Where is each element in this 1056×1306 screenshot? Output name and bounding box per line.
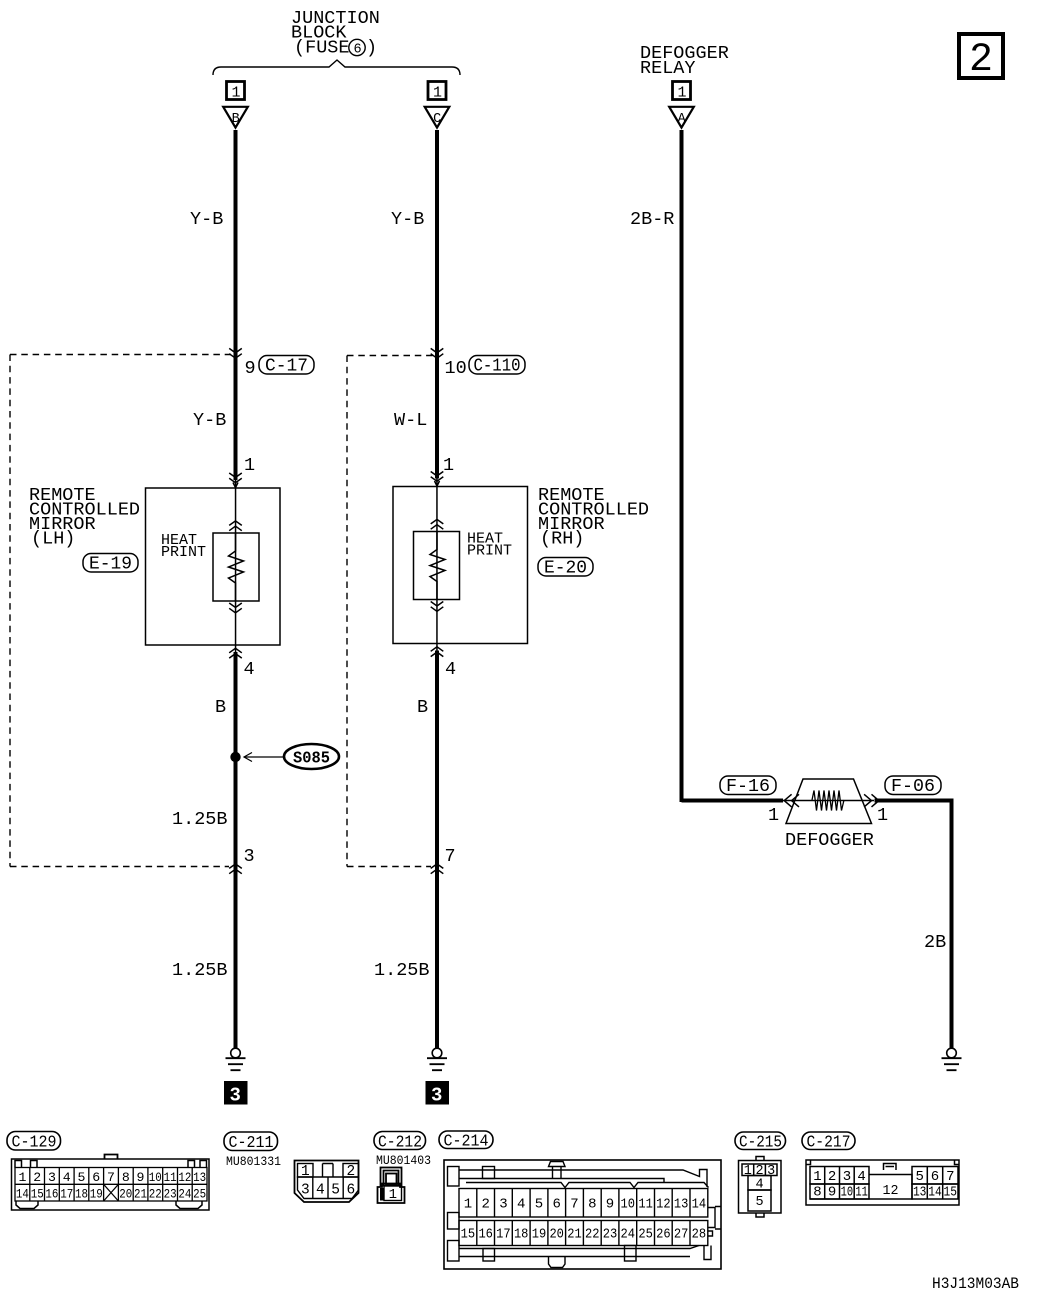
svg-text:2: 2 bbox=[969, 38, 993, 83]
svg-text:13: 13 bbox=[193, 1170, 206, 1185]
svg-text:6: 6 bbox=[92, 1170, 100, 1185]
arrow out of RH mirror pin 4 bbox=[431, 647, 444, 657]
svg-text:4: 4 bbox=[63, 1170, 71, 1185]
connector C-212 body bbox=[378, 1168, 405, 1204]
svg-text:1.25B: 1.25B bbox=[172, 960, 228, 981]
svg-text:10: 10 bbox=[149, 1170, 162, 1185]
svg-text:12: 12 bbox=[178, 1170, 191, 1185]
svg-text:21: 21 bbox=[567, 1227, 582, 1243]
svg-text:3: 3 bbox=[230, 1085, 241, 1107]
svg-text:E-19: E-19 bbox=[89, 554, 132, 575]
svg-text:3: 3 bbox=[244, 846, 255, 867]
svg-text:): ) bbox=[366, 38, 377, 59]
svg-text:8: 8 bbox=[813, 1185, 821, 1201]
resistor heat element RH bbox=[430, 532, 445, 600]
connector crossing C-17 arrows bbox=[229, 348, 242, 358]
connector label C-212 bbox=[374, 1132, 426, 1153]
connector label C-129 bbox=[7, 1132, 61, 1153]
label REMOTE CONTROLLED MIRROR (LH) bbox=[29, 485, 140, 550]
svg-text:23: 23 bbox=[603, 1227, 618, 1243]
svg-text:2: 2 bbox=[481, 1197, 489, 1213]
svg-text:11: 11 bbox=[164, 1170, 177, 1185]
svg-text:4: 4 bbox=[857, 1169, 865, 1185]
svg-text:14: 14 bbox=[692, 1197, 707, 1213]
svg-text:15: 15 bbox=[461, 1227, 476, 1243]
node DEFOGGER RELAY label bbox=[640, 43, 729, 79]
connector label E-20 bbox=[538, 558, 593, 579]
svg-text:Y-B: Y-B bbox=[193, 410, 226, 431]
svg-text:DEFOGGER: DEFOGGER bbox=[785, 830, 874, 851]
svg-text:15: 15 bbox=[944, 1185, 958, 1201]
connector C-129 body bbox=[12, 1155, 210, 1211]
svg-text:27: 27 bbox=[674, 1227, 689, 1243]
node JUNCTION BLOCK (FUSE 6) label bbox=[291, 8, 380, 59]
connector label E-19 bbox=[83, 554, 138, 575]
svg-text:2: 2 bbox=[33, 1170, 41, 1185]
svg-text:10: 10 bbox=[445, 358, 467, 379]
svg-text:25: 25 bbox=[638, 1227, 653, 1243]
svg-text:B: B bbox=[417, 697, 428, 718]
svg-text:20: 20 bbox=[119, 1187, 132, 1202]
wire crossing arrow col1 bottom bbox=[229, 864, 242, 874]
svg-text:F-06: F-06 bbox=[891, 776, 935, 797]
svg-text:17: 17 bbox=[60, 1187, 73, 1202]
svg-text:7: 7 bbox=[107, 1170, 115, 1185]
svg-text:8: 8 bbox=[122, 1170, 130, 1185]
arrow up above RH heat element bbox=[431, 519, 444, 529]
dashed enclosure RH mirror bbox=[347, 356, 433, 867]
svg-text:25: 25 bbox=[193, 1187, 206, 1202]
ground col1 bbox=[226, 1048, 246, 1070]
svg-text:H3J13M03AB: H3J13M03AB bbox=[932, 1275, 1019, 1293]
wire crossing arrow col2 bottom bbox=[431, 864, 444, 874]
arrow out of LH mirror pin 4 bbox=[229, 648, 242, 658]
svg-text:3: 3 bbox=[499, 1197, 507, 1213]
label HEAT PRINT LH bbox=[161, 532, 206, 561]
svg-text:MU801403: MU801403 bbox=[376, 1153, 431, 1168]
page number box 2 bbox=[959, 34, 1003, 83]
svg-text:22: 22 bbox=[149, 1187, 162, 1202]
dashed enclosure LH mirror bbox=[10, 355, 231, 867]
svg-text:3: 3 bbox=[431, 1085, 442, 1107]
heat print element box LH bbox=[213, 533, 259, 601]
resistor heat element LH bbox=[229, 533, 244, 601]
svg-text:9: 9 bbox=[606, 1197, 614, 1213]
svg-text:1: 1 bbox=[389, 1187, 397, 1203]
svg-text:C-215: C-215 bbox=[739, 1134, 782, 1153]
svg-text:6: 6 bbox=[552, 1197, 560, 1213]
svg-text:3: 3 bbox=[301, 1183, 310, 1199]
svg-text:11: 11 bbox=[638, 1197, 653, 1213]
arrow down below RH heat element bbox=[431, 602, 444, 612]
svg-text:1.25B: 1.25B bbox=[172, 809, 228, 830]
svg-text:1: 1 bbox=[877, 805, 888, 826]
svg-text:C-212: C-212 bbox=[378, 1134, 422, 1153]
connector label F-06 bbox=[885, 776, 941, 797]
connector label C-215 bbox=[735, 1132, 786, 1153]
svg-text:7: 7 bbox=[445, 846, 456, 867]
svg-text:2: 2 bbox=[828, 1169, 836, 1185]
connector label C-214 bbox=[439, 1131, 493, 1152]
svg-text:PRINT: PRINT bbox=[467, 543, 512, 560]
svg-text:9: 9 bbox=[828, 1185, 836, 1201]
ground page ref 3 col1 bbox=[224, 1081, 248, 1107]
ground col3 bbox=[942, 1048, 962, 1070]
svg-text:B: B bbox=[215, 697, 226, 718]
connector label C-211 bbox=[224, 1132, 278, 1153]
svg-text:16: 16 bbox=[478, 1227, 493, 1243]
arrow down below LH heat element bbox=[229, 603, 242, 613]
svg-text:14: 14 bbox=[16, 1187, 29, 1202]
svg-text:1: 1 bbox=[678, 85, 687, 102]
connector pin box 1 (col B) bbox=[227, 82, 245, 102]
svg-text:1: 1 bbox=[744, 1164, 752, 1179]
svg-text:28: 28 bbox=[692, 1227, 707, 1243]
connector pin box 1 (col A) bbox=[673, 82, 691, 102]
junction block brace bbox=[213, 60, 460, 75]
arrow left into defogger bbox=[784, 794, 799, 807]
svg-text:13: 13 bbox=[913, 1185, 927, 1201]
svg-text:9: 9 bbox=[245, 358, 256, 379]
svg-text:C-110: C-110 bbox=[474, 356, 521, 377]
arrow right out of defogger bbox=[864, 794, 879, 807]
connector label C-217 bbox=[802, 1132, 855, 1153]
svg-text:E-20: E-20 bbox=[544, 558, 587, 579]
svg-text:C-17: C-17 bbox=[265, 356, 308, 377]
svg-text:19: 19 bbox=[90, 1187, 103, 1202]
svg-text:2B: 2B bbox=[924, 932, 946, 953]
svg-text:1: 1 bbox=[232, 85, 241, 102]
svg-text:4: 4 bbox=[517, 1197, 525, 1213]
wire arrow into RH mirror bbox=[431, 472, 444, 487]
svg-text:1.25B: 1.25B bbox=[374, 960, 430, 981]
defogger relay terminal triangle A bbox=[669, 107, 694, 128]
defogger trapezoid body bbox=[786, 779, 872, 824]
svg-text:A: A bbox=[678, 112, 687, 127]
connector label C-17 bbox=[259, 356, 314, 377]
junction block terminal triangle B bbox=[223, 107, 248, 128]
svg-text:20: 20 bbox=[549, 1227, 564, 1243]
svg-text:5: 5 bbox=[755, 1195, 763, 1210]
connector label C-110 bbox=[469, 356, 525, 377]
svg-text:16: 16 bbox=[45, 1187, 58, 1202]
svg-text:C-129: C-129 bbox=[12, 1134, 57, 1153]
wire defogger to right ground bbox=[875, 799, 952, 1049]
svg-text:3: 3 bbox=[48, 1170, 56, 1185]
svg-text:12: 12 bbox=[656, 1197, 671, 1213]
svg-text:1: 1 bbox=[433, 85, 442, 102]
splice label S085 oval bbox=[284, 744, 339, 769]
wire bend col3 to defogger bbox=[682, 799, 784, 803]
svg-text:C-217: C-217 bbox=[807, 1134, 851, 1153]
svg-text:(RH): (RH) bbox=[540, 529, 584, 550]
svg-text:24: 24 bbox=[621, 1227, 636, 1243]
svg-text:13: 13 bbox=[674, 1197, 689, 1213]
ground page ref 3 col2 bbox=[426, 1081, 450, 1107]
svg-text:S085: S085 bbox=[293, 749, 330, 768]
svg-text:C-214: C-214 bbox=[444, 1133, 489, 1152]
svg-text:B: B bbox=[232, 112, 240, 127]
svg-text:11: 11 bbox=[855, 1185, 868, 1201]
svg-text:4: 4 bbox=[316, 1183, 325, 1199]
wire arrow into LH mirror bbox=[229, 473, 242, 488]
svg-text:3: 3 bbox=[767, 1164, 775, 1179]
connector C-211 body bbox=[295, 1161, 359, 1203]
splice junction dot S085 bbox=[230, 752, 240, 762]
svg-text:21: 21 bbox=[134, 1187, 147, 1202]
svg-text:22: 22 bbox=[585, 1227, 600, 1243]
svg-text:1: 1 bbox=[443, 455, 454, 476]
svg-text:7: 7 bbox=[946, 1169, 954, 1185]
svg-text:(LH): (LH) bbox=[31, 529, 75, 550]
svg-text:6: 6 bbox=[354, 43, 362, 58]
wire through defogger bbox=[783, 800, 874, 802]
defogger heater coil bbox=[812, 791, 844, 811]
svg-text:3: 3 bbox=[843, 1169, 851, 1185]
svg-text:1: 1 bbox=[301, 1164, 310, 1180]
wire inside LH mirror bbox=[235, 480, 237, 658]
junction block terminal triangle C bbox=[425, 107, 450, 128]
svg-text:PRINT: PRINT bbox=[161, 544, 206, 561]
svg-text:4: 4 bbox=[445, 659, 456, 680]
svg-text:10: 10 bbox=[841, 1185, 854, 1201]
svg-text:RELAY: RELAY bbox=[640, 58, 696, 79]
label HEAT PRINT RH bbox=[467, 531, 512, 560]
svg-text:5: 5 bbox=[915, 1169, 923, 1185]
connector C-217 body bbox=[806, 1160, 959, 1205]
label REMOTE CONTROLLED MIRROR (RH) bbox=[538, 485, 649, 550]
svg-text:14: 14 bbox=[928, 1185, 942, 1201]
svg-text:2: 2 bbox=[346, 1164, 355, 1180]
wire B col1 lower bbox=[234, 652, 238, 1048]
svg-text:5: 5 bbox=[331, 1183, 340, 1199]
svg-text:C: C bbox=[433, 112, 441, 127]
connector label F-16 bbox=[720, 776, 776, 797]
svg-text:1: 1 bbox=[813, 1169, 821, 1185]
svg-text:26: 26 bbox=[656, 1227, 671, 1243]
ground col2 bbox=[427, 1048, 447, 1070]
svg-text:F-16: F-16 bbox=[726, 776, 770, 797]
connector pin box 1 (col C) bbox=[428, 82, 446, 102]
svg-text:1: 1 bbox=[768, 805, 779, 826]
svg-text:C-211: C-211 bbox=[229, 1134, 274, 1153]
svg-text:15: 15 bbox=[31, 1187, 44, 1202]
wire 2B-R col3 bbox=[680, 130, 684, 802]
remote controlled mirror RH box bbox=[393, 487, 528, 644]
connector crossing C-110 arrows bbox=[431, 348, 444, 358]
svg-text:W-L: W-L bbox=[394, 410, 427, 431]
svg-text:18: 18 bbox=[514, 1227, 529, 1243]
wire B col2 lower bbox=[435, 651, 439, 1049]
wire Y-B col2 upper bbox=[435, 130, 439, 479]
svg-text:5: 5 bbox=[535, 1197, 543, 1213]
svg-text:(FUSE: (FUSE bbox=[294, 38, 350, 59]
connector C-214 body bbox=[444, 1160, 721, 1269]
svg-text:5: 5 bbox=[78, 1170, 86, 1185]
svg-text:7: 7 bbox=[570, 1197, 578, 1213]
svg-text:6: 6 bbox=[931, 1169, 939, 1185]
svg-text:1: 1 bbox=[464, 1197, 472, 1213]
svg-text:9: 9 bbox=[137, 1170, 145, 1185]
svg-text:6: 6 bbox=[346, 1183, 355, 1199]
svg-text:19: 19 bbox=[532, 1227, 547, 1243]
wire inside RH mirror bbox=[436, 478, 438, 656]
svg-text:17: 17 bbox=[496, 1227, 511, 1243]
svg-text:1: 1 bbox=[244, 455, 255, 476]
svg-text:1: 1 bbox=[18, 1170, 26, 1185]
wire Y-B col1 upper bbox=[234, 130, 238, 480]
splice arrow pointer bbox=[244, 753, 284, 762]
svg-text:Y-B: Y-B bbox=[190, 209, 223, 230]
svg-text:MU801331: MU801331 bbox=[226, 1154, 281, 1169]
svg-text:24: 24 bbox=[178, 1187, 191, 1202]
svg-text:10: 10 bbox=[621, 1197, 636, 1213]
connector C-215 body bbox=[739, 1157, 782, 1218]
svg-text:18: 18 bbox=[75, 1187, 88, 1202]
remote controlled mirror LH box bbox=[146, 488, 281, 645]
svg-text:23: 23 bbox=[164, 1187, 177, 1202]
svg-text:4: 4 bbox=[244, 659, 255, 680]
svg-text:2B-R: 2B-R bbox=[630, 209, 674, 230]
svg-text:4: 4 bbox=[755, 1178, 763, 1193]
svg-text:Y-B: Y-B bbox=[391, 209, 424, 230]
arrow up above LH heat element bbox=[229, 521, 242, 531]
svg-text:12: 12 bbox=[883, 1183, 899, 1199]
svg-text:8: 8 bbox=[588, 1197, 596, 1213]
heat print element box RH bbox=[414, 532, 460, 600]
